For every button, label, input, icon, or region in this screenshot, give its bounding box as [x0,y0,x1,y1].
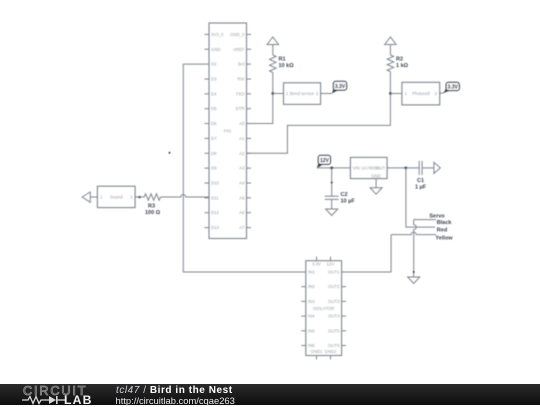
junction R1 / bend sensor [271,92,274,95]
svg-text:DTR: DTR [236,106,245,111]
wire R3 to D11 with hop [161,195,210,198]
svg-text:D6: D6 [211,121,217,126]
svg-text:D10: D10 [211,181,219,186]
svg-text:A1: A1 [239,136,245,141]
svg-text:D5: D5 [211,106,217,111]
net flag 12V [317,161,324,168]
svg-text:FIO: FIO [224,129,232,134]
wire C1 to power symbol [422,167,434,169]
wire Sound pin2 to R3 [135,196,144,198]
svg-text:IN6: IN6 [308,343,315,348]
svg-text:10 µF: 10 µF [341,199,356,205]
svg-text:A3: A3 [239,166,245,171]
svg-text:R3: R3 [148,204,155,210]
capacitor C1 1 uF [415,161,427,191]
power symbol right of C1 [434,162,440,173]
svg-text:D8: D8 [211,151,217,156]
wire Bend sensor pin2 to flag [321,93,332,95]
wire 12V to VIN [317,167,351,169]
net flag 3.3V (photocell) [444,87,453,93]
svg-text:TXO: TXO [236,91,245,96]
power symbol above R2 [385,37,397,45]
svg-text:10 kΩ: 10 kΩ [279,63,295,69]
svg-text:C1: C1 [417,178,424,184]
svg-text:Black: Black [437,220,453,226]
svg-text:3.3V: 3.3V [312,262,321,267]
svg-text:ISOLATOR: ISOLATOR [313,306,334,311]
junction OUT / C1 / servo supply [405,167,408,170]
svg-text:GND: GND [371,174,381,179]
svg-text:A6: A6 [239,210,245,215]
wire R2 to junction [389,72,391,94]
node stray dot [169,152,171,154]
svg-text:OUT: OUT [376,166,385,171]
svg-text:Sound: Sound [110,195,123,200]
svg-text:IN4: IN4 [308,314,315,319]
power symbol above R1 [267,37,279,45]
voltage regulator U5 UA7805C [350,157,387,178]
wire power to R2 [389,45,391,56]
svg-text:D2: D2 [211,62,217,67]
ground servo [408,277,420,284]
svg-text:D12: D12 [211,210,219,215]
sensor U4 Photocell [402,82,440,105]
ground below C2 [326,209,338,216]
svg-text:IN1: IN1 [308,270,315,275]
svg-text:OUT4: OUT4 [328,314,340,319]
capacitor C2 10 uF [325,192,356,205]
svg-text:R2: R2 [396,57,403,63]
svg-text:AREF: AREF [233,47,245,52]
wire junction to Bend sensor pin1 [273,93,284,95]
svg-text:GND1: GND1 [311,349,324,354]
wire junction down to C2 [331,168,333,196]
svg-text:RXI: RXI [237,77,244,82]
wire servo Black [414,219,436,221]
svg-text:GND2: GND2 [325,349,338,354]
svg-text:VIN: VIN [353,166,360,171]
svg-text:OUT6: OUT6 [328,343,340,348]
svg-text:A7: A7 [239,225,245,230]
svg-text:A2: A2 [239,151,245,156]
svg-text:OUT3: OUT3 [328,299,340,304]
svg-text:IN5: IN5 [308,328,315,333]
speaker U2 Sound [97,186,135,207]
svg-text:OUT1: OUT1 [328,270,340,275]
wire junction to C1 [406,167,419,169]
svg-text:3v3: 3v3 [238,62,246,67]
svg-text:D9: D9 [211,166,217,171]
resistor R1 10 k [270,55,295,73]
svg-text:12V: 12V [327,262,335,267]
svg-text:1 kΩ: 1 kΩ [396,63,409,69]
svg-text:R1: R1 [279,57,286,63]
wire D2 to isolator IN1 [183,64,305,272]
wire R1 to junction [272,73,274,94]
wire OUT to junction [387,167,406,169]
svg-text:GND: GND [211,47,221,52]
wire Photocell pin2 to flag [440,93,445,94]
footer bar [0,384,540,405]
wire C2 to ground [331,199,333,209]
node dot on C2 wire [331,182,333,184]
wire photocell junction to A2 [247,94,391,154]
junction above servo ground [413,271,415,273]
svg-text:100 Ω: 100 Ω [145,210,161,216]
svg-text:IN2: IN2 [308,284,315,289]
svg-text:Servo: Servo [429,214,445,220]
wire Yellow down to isolator OUT1 [346,235,391,272]
ground below regulator [370,188,382,195]
wire junction to Photocell pin1 [390,93,402,95]
svg-text:Yellow: Yellow [435,235,453,241]
wire regulator GND pin [375,179,377,188]
svg-text:D4: D4 [211,91,217,96]
power flag left of Sound [82,192,90,202]
svg-text:OUT5: OUT5 [328,328,340,333]
wire servo Yellow with hop [391,232,436,235]
svg-text:3V3_0: 3V3_0 [211,32,224,37]
junction Sound pin2 [138,196,141,199]
svg-text:D7: D7 [211,136,217,141]
optoisolator U6 ISOLATOR [301,257,346,360]
svg-text:D13: D13 [211,225,219,230]
svg-text:Red: Red [437,228,447,234]
net flag 3.3V (bend sensor) [332,87,339,94]
wire 12V supply down to servo Red [406,168,435,227]
wire junction down to A0 [247,94,273,124]
svg-text:C2: C2 [341,192,348,198]
IC U1 FIO microcontroller module [205,23,252,239]
resistor R3 [144,194,161,216]
junction R2 / photocell [389,92,392,95]
resistor R2 1 k [387,55,408,72]
svg-text:3.3V: 3.3V [448,84,459,90]
svg-text:A0: A0 [239,121,245,126]
svg-text:Bend sensor: Bend sensor [290,91,315,96]
svg-text:3.3V: 3.3V [335,84,346,90]
svg-text:1 µF: 1 µF [415,185,427,191]
junction 12V / C2 [330,167,333,170]
svg-text:GND_0: GND_0 [230,32,245,37]
svg-text:D11: D11 [211,195,219,200]
wire Black down to ground with hop over Red [414,220,417,277]
svg-text:IN3: IN3 [308,299,315,304]
svg-text:OUT2: OUT2 [328,284,340,289]
svg-text:12V: 12V [320,158,330,164]
svg-text:A5: A5 [239,195,245,200]
svg-text:Photocell: Photocell [412,91,430,96]
wire power to R1 [272,45,274,56]
wire power to Sound pin1 [90,196,97,198]
svg-text:A4: A4 [239,181,245,186]
svg-text:D3: D3 [211,77,217,82]
sensor U3 Bend sensor [284,83,321,105]
